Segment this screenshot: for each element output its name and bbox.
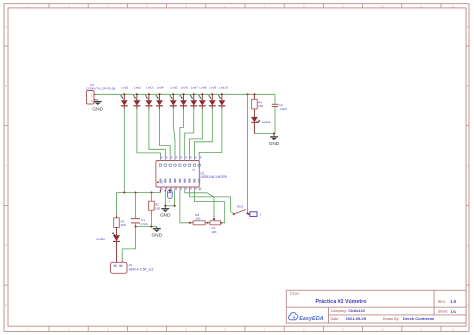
Date label [331,317,340,321]
net port 1 [248,212,262,217]
label Led5 [171,86,178,90]
resistor R1 [114,216,120,236]
svg-text:Led9: Led9 [210,86,217,90]
svg-text:Led12: Led12 [262,120,271,124]
pin node U1 pin1 [160,190,162,192]
svg-text:Led4: Led4 [157,86,164,90]
junction node R2 bottom [150,226,152,228]
svg-text:100: 100 [155,206,160,210]
Company value Cbtis122 [348,308,365,313]
svg-text:EasyEDA: EasyEDA [299,316,323,322]
junction node C2 GND [273,133,275,135]
label Led10 [219,86,228,90]
svg-text:1/1: 1/1 [451,309,457,314]
label Led6 [181,86,188,90]
svg-text:Led6: Led6 [181,86,188,90]
label Led7 [191,86,198,90]
svg-text:Date:: Date: [331,317,340,321]
label P3 [90,83,94,87]
junction node R3-P1 [207,222,209,224]
wire GND bus to H1 pin2 [122,227,135,261]
svg-text:10K: 10K [211,230,217,234]
svg-text:C: C [467,164,469,168]
label U1 [200,171,204,175]
Drawn By value Derek Contreras [403,316,435,321]
label H1 [129,263,133,267]
svg-text:100: 100 [121,223,126,227]
label Led11 [97,237,106,241]
switch SW1 [233,210,249,216]
junction node Led6 [182,93,184,95]
junction node R2-rail [150,191,152,193]
junction node Led10 [221,93,223,95]
label C1 [140,218,148,226]
junction node Led9 [211,93,213,95]
wire U1 to SW1 [190,190,234,214]
svg-text:REV:: REV: [438,300,446,304]
junction node Led5 [172,93,174,95]
probe C3 capsule [168,190,173,199]
svg-text:Led8: Led8 [200,86,207,90]
LED Led10 [218,94,225,109]
label minus [168,200,170,204]
title block frame [286,290,466,323]
LED Led1 [121,94,128,109]
wire Led3 to U1 pin [149,109,165,155]
label Led3 [146,86,153,90]
svg-text:Led5: Led5 [171,86,178,90]
wire Led8 to U1 pin [190,109,203,155]
wire Led5 to U1 pin [173,109,175,155]
Company label [331,309,347,313]
junction node SW1 drop [246,93,248,95]
svg-text:Drawn By:: Drawn By: [383,317,400,321]
svg-text:GND: GND [92,107,103,113]
LED Led5 [170,94,177,109]
junction node R4 [253,93,255,95]
wire P3 pin2 to GND [96,100,98,102]
svg-text:GND: GND [151,233,162,239]
label Led2 [134,86,141,90]
op-amp U1 LM3914 body [156,156,201,191]
ground GND under U1 [160,206,171,219]
svg-text:Led10: Led10 [219,86,228,90]
junction node gnd bar right [174,205,176,207]
svg-text:100: 100 [258,104,263,108]
label R2 [155,203,160,211]
label Led1 [122,86,129,90]
svg-text:A: A [467,25,469,29]
title text Practica #2 Vumetro [316,299,368,305]
svg-text:Led7: Led7 [191,86,198,90]
Drawn By label [383,317,400,321]
LED Led8 [199,94,206,109]
label P1 [211,226,217,234]
svg-text:TITLE:: TITLE: [290,292,300,296]
label C2 [279,103,287,111]
ground GND under R2 [151,227,162,239]
LED Led11 [112,233,120,263]
svg-text:E: E [467,304,469,308]
wire Led6 to U1 pin [180,109,184,155]
junction node gnd bar left [164,205,166,207]
capacitor C1 [131,193,140,227]
svg-text:D: D [5,243,7,247]
LED Led7 [190,94,197,109]
svg-text:CONN-TH_2P-P5.08: CONN-TH_2P-P5.08 [86,86,115,90]
wire Led2 to U1 pin [137,109,161,155]
svg-text:100: 100 [195,217,200,221]
junction node Led4 [158,93,160,95]
svg-text:C: C [5,164,7,168]
REV value 1.0 [450,299,456,304]
label SW1 [237,205,244,209]
svg-text:Led1: Led1 [122,86,129,90]
LED Led6 [180,94,187,109]
label HDR-F-2.54_1x2 [129,268,154,272]
pin node P1 right [221,222,223,224]
label LM3914N-1/NOPB [200,175,227,179]
svg-text:Cbtis122: Cbtis122 [348,308,365,313]
LED Led12 [251,117,260,134]
LED Led2 [133,94,140,109]
svg-text:LM3914N-1/NOPB: LM3914N-1/NOPB [200,175,227,179]
label Led12 [262,120,271,124]
junction node Led2 [136,93,138,95]
svg-text:Práctica #2 Vúmetro: Práctica #2 Vúmetro [316,299,368,305]
svg-text:H1: H1 [129,263,133,267]
svg-text:B: B [467,84,469,88]
LED Led9 [209,94,216,109]
Sheet label [438,310,448,314]
Sheet value 1/1 [451,309,457,314]
svg-text:Led11: Led11 [97,237,106,241]
connector P3 (CONN-TH_2P-P5.08) [87,91,97,105]
junction node C1 bottom [134,226,136,228]
ground GND at C2 [269,134,280,147]
EasyEDA logo [289,313,324,322]
wire Led9 to U1 pin [194,109,212,155]
svg-text:2021-05-25: 2021-05-25 [346,316,367,321]
wire Led7 to U1 pin [185,109,194,155]
wire Led4 to U1 pin [160,109,171,155]
junction node Led1-rail [123,191,125,193]
junction node Led7 [193,93,195,95]
wire input rail [117,190,161,215]
svg-text:Led2: Led2 [134,86,141,90]
label Led4 [157,86,164,90]
pin node R3 left [189,222,191,224]
svg-text:Company:: Company: [331,309,347,313]
svg-text:Derek Contreras: Derek Contreras [403,316,435,321]
resistor R2 [149,193,155,227]
svg-text:HDR-F-2.54_1x2: HDR-F-2.54_1x2 [129,268,154,272]
svg-text:10µF: 10µF [280,107,287,111]
svg-text:A: A [5,25,7,29]
junction node C1-rail [134,191,136,193]
svg-text:SW1: SW1 [237,205,244,209]
junction node Led3 [148,93,150,95]
potentiometer P1 [210,216,222,224]
svg-text:Sheet:: Sheet: [438,310,448,314]
resistor R4 [252,94,258,117]
wire Led10 to U1 pin [199,109,222,155]
wire U1 to R3 [180,190,190,222]
svg-text:D: D [467,243,469,247]
svg-text:4.7µF: 4.7µF [140,222,148,226]
LED Led3 [145,94,152,109]
LED Led4 [156,94,163,109]
svg-text:1.0: 1.0 [450,299,456,304]
wire C1-R2 ground bus [136,226,157,228]
label R3 [195,213,200,221]
wire U1 to P1 wiper [185,190,214,216]
svg-text:GND: GND [269,141,280,147]
label R4 [258,100,263,108]
wire rail to SW1 [247,94,249,213]
svg-text:Led3: Led3 [146,86,153,90]
svg-text:–: – [168,200,170,204]
wire Led1 to input rail [123,109,125,192]
junction node capsule top [169,189,171,191]
junction node Led1 [123,93,125,95]
title block TITLE label [290,292,300,296]
resistor R3 [190,221,210,225]
connector H1 [111,260,128,273]
wire U1 ground bar [165,190,174,205]
label Led8 [200,86,207,90]
Date value 2021-05-25 [346,316,367,321]
ground GND at P3 [92,102,103,113]
svg-text:E: E [5,304,7,308]
label R1 [121,219,126,227]
junction node Led8 [201,93,203,95]
wire V+ rail [96,93,275,95]
pin node U1 pin2 [164,190,166,192]
label CONN-TH_2P-P5.08 [86,86,115,90]
capacitor C2 [272,94,278,133]
wire U1 to P1 right [194,190,224,222]
REV label [438,300,446,304]
wire Led12 to GND [254,133,274,135]
svg-text:GND: GND [160,213,171,219]
svg-text:B: B [5,84,7,88]
label Led9 [210,86,217,90]
